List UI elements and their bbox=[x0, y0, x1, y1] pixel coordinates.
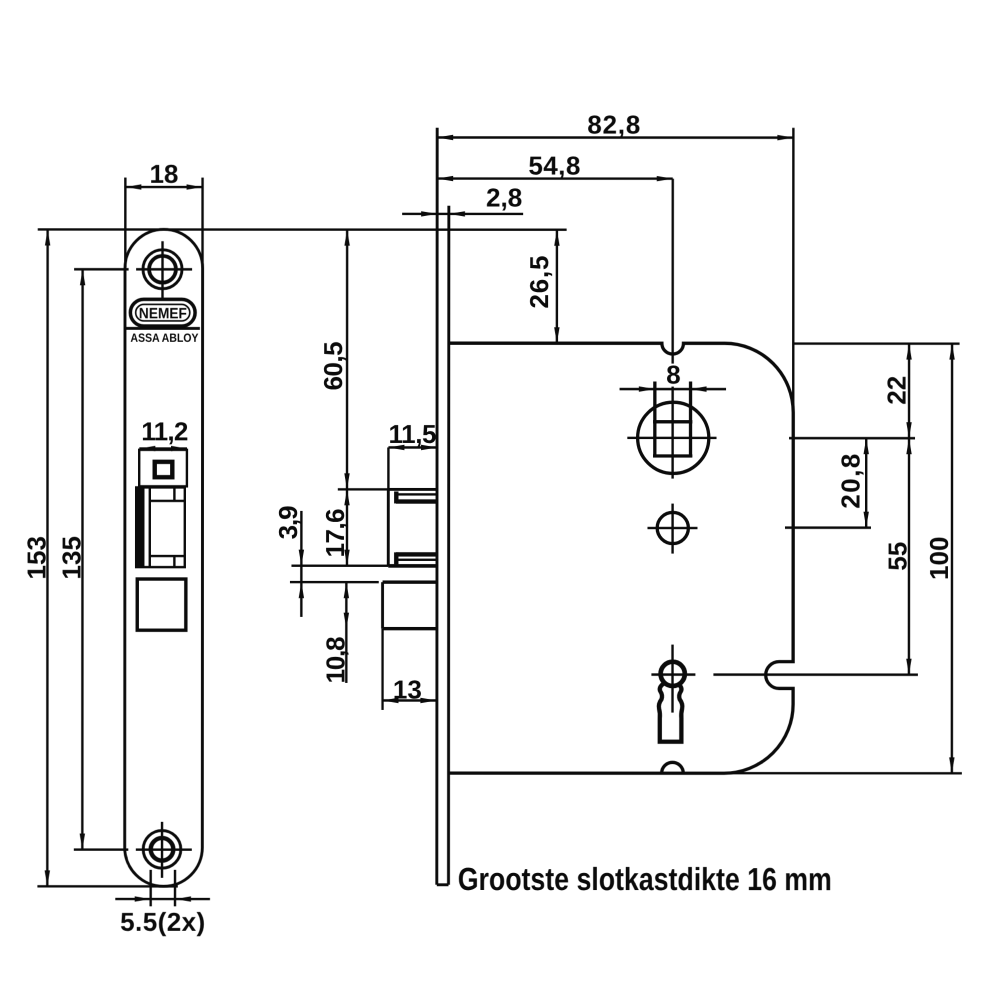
latch inner divider bbox=[149, 488, 151, 566]
dim 5.5 ext right bbox=[174, 870, 176, 907]
deadbolt cutout front bbox=[137, 579, 186, 630]
dim 5.5 line bbox=[115, 898, 210, 900]
dim 82.8 ext right bbox=[792, 128, 795, 413]
NEMEF logo outer stadium bbox=[130, 299, 195, 326]
svg-text:82,8: 82,8 bbox=[587, 110, 640, 140]
latch bolt side top bbox=[388, 488, 437, 491]
ext case top right bbox=[793, 342, 959, 344]
svg-text:11,5: 11,5 bbox=[389, 419, 437, 449]
faceplate side view front line bbox=[435, 128, 438, 885]
dim 18 line bbox=[125, 186, 202, 188]
dim 20.8 line bbox=[865, 438, 867, 528]
dim 8 line bbox=[620, 388, 727, 390]
svg-text:54,8: 54,8 bbox=[528, 151, 580, 181]
latch bolt thick bar top bbox=[396, 499, 437, 503]
deadbolt side face bbox=[381, 582, 384, 629]
follower square bottom bbox=[653, 454, 692, 457]
latch notch vertical top bbox=[173, 488, 175, 501]
svg-text:3,9: 3,9 bbox=[273, 505, 303, 539]
lock case outline bbox=[449, 343, 794, 773]
latch bolt hook top bbox=[394, 491, 398, 503]
latch step line bottom bbox=[150, 555, 185, 557]
dim 54.8 line bbox=[437, 177, 673, 180]
dim 100 line bbox=[951, 344, 954, 774]
svg-text:5.5(2x): 5.5(2x) bbox=[120, 907, 205, 937]
latch bolt side bottom bbox=[388, 564, 437, 568]
deadbolt side top bbox=[383, 580, 437, 583]
dim 8 ext left bbox=[654, 382, 656, 422]
svg-text:135: 135 bbox=[56, 536, 86, 579]
faceplate side view bottom bbox=[437, 883, 449, 886]
dim 60.5 and 17.6 line bbox=[346, 230, 349, 566]
keyhole circle bbox=[661, 662, 685, 686]
latch black bar bbox=[135, 487, 144, 567]
svg-text:26,5: 26,5 bbox=[524, 256, 554, 309]
ext keyhole center right bbox=[713, 673, 917, 676]
case bottom notch bbox=[662, 762, 684, 773]
ext 135 top bbox=[74, 268, 128, 270]
ext locking pin right bbox=[785, 526, 871, 528]
axis centerline segment 2 bbox=[671, 387, 673, 479]
ext follower center right bbox=[789, 437, 915, 439]
screw hole bottom outer bbox=[143, 831, 181, 869]
svg-text:20,8: 20,8 bbox=[835, 454, 865, 509]
axis centerline segment 3 bbox=[671, 504, 673, 554]
latch step line top bbox=[150, 500, 185, 502]
cutout 11.2 rectangle bbox=[139, 450, 187, 487]
ext latch bottom left bbox=[291, 564, 388, 566]
svg-text:NEMEF: NEMEF bbox=[139, 305, 187, 322]
dim 5.5 ext left bbox=[149, 870, 151, 907]
dim 13 line bbox=[382, 699, 436, 701]
svg-text:18: 18 bbox=[149, 159, 178, 189]
latch bolt thin line top bbox=[398, 493, 438, 495]
latch notch vertical bottom bbox=[173, 556, 175, 566]
svg-text:Grootste slotkastdikte 16 mm: Grootste slotkastdikte 16 mm bbox=[458, 861, 832, 897]
latch bolt thin line bottom bbox=[397, 559, 437, 561]
faceplate front view outline bbox=[125, 229, 203, 886]
follower centerline horizontal bbox=[627, 437, 716, 439]
svg-text:100: 100 bbox=[924, 537, 954, 580]
dim 22 and 55 line bbox=[908, 344, 911, 675]
dim 18 ext left bbox=[124, 178, 126, 268]
screw hole bottom centerline vertical bbox=[161, 822, 163, 878]
svg-text:2,8: 2,8 bbox=[486, 182, 522, 212]
latch bolt thick bar bottom bbox=[396, 552, 437, 556]
NEMEF logo inner stadium bbox=[136, 304, 190, 321]
latch bolt side face bbox=[387, 489, 390, 566]
keyhole centerline horizontal bbox=[651, 673, 695, 675]
svg-text:153: 153 bbox=[21, 536, 51, 579]
svg-text:ASSA ABLOY: ASSA ABLOY bbox=[130, 331, 198, 345]
dim 2.8 line bbox=[402, 213, 523, 215]
svg-text:10,8: 10,8 bbox=[320, 636, 350, 683]
keyhole stem bbox=[659, 683, 682, 741]
svg-text:60,5: 60,5 bbox=[318, 341, 348, 390]
ext case bottom right bbox=[724, 772, 962, 775]
dim 153 line bbox=[46, 229, 49, 886]
axis centerline segment 1 bbox=[671, 179, 673, 364]
small square spindle hole bbox=[155, 462, 173, 477]
dim 11.2 line bbox=[139, 447, 187, 449]
ext deadbolt top left bbox=[290, 581, 379, 583]
svg-text:13: 13 bbox=[393, 674, 422, 704]
ext line bottom 153 bbox=[37, 885, 177, 887]
follower square top bbox=[653, 420, 692, 423]
ext latch top left bbox=[338, 488, 389, 490]
svg-text:17,6: 17,6 bbox=[320, 508, 350, 557]
svg-text:55: 55 bbox=[882, 542, 912, 571]
dim 3.9 line bbox=[300, 511, 302, 617]
ext 135 bottom bbox=[74, 848, 129, 850]
screw hole bottom inner bbox=[151, 838, 174, 861]
latch bolt hook bottom bbox=[394, 552, 398, 564]
screw hole top centerline vertical bbox=[161, 241, 163, 298]
follower square side right bbox=[689, 382, 692, 458]
svg-text:11,2: 11,2 bbox=[141, 416, 188, 446]
datum line top bbox=[38, 228, 567, 231]
locking pin circle bbox=[657, 512, 688, 543]
screw hole top centerline horizontal bbox=[136, 268, 192, 270]
svg-text:8: 8 bbox=[666, 360, 680, 390]
rule under logo bbox=[126, 327, 200, 330]
dim 13 ext bbox=[381, 629, 383, 710]
axis centerline segment 4 bbox=[671, 645, 673, 713]
latch cutout outline bbox=[136, 487, 185, 567]
screw hole top outer bbox=[143, 250, 182, 289]
follower square side left bbox=[653, 382, 656, 457]
svg-text:22: 22 bbox=[882, 376, 912, 405]
locking pin centerline horizontal bbox=[647, 527, 697, 529]
dim 82.8 line bbox=[437, 136, 793, 139]
follower circle bbox=[638, 402, 709, 473]
deadbolt side bottom bbox=[383, 627, 437, 630]
screw hole bottom centerline horizontal bbox=[136, 848, 192, 850]
dim 18 ext right bbox=[201, 178, 203, 268]
dim 10.8 line bbox=[345, 582, 347, 683]
screw hole top inner bbox=[149, 256, 176, 283]
dim 11.5 ext bbox=[387, 447, 389, 489]
dim 26.5 line bbox=[556, 230, 558, 343]
dim 11.5 line bbox=[388, 446, 437, 448]
dim 135 line bbox=[81, 269, 84, 849]
faceplate side view back line bbox=[447, 206, 450, 885]
